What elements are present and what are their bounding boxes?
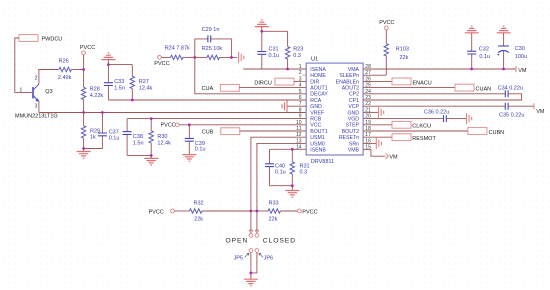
svg-text:0.1u: 0.1u (109, 136, 120, 142)
svg-text:C35 0.22u: C35 0.22u (499, 113, 524, 119)
svg-text:C33: C33 (114, 79, 124, 85)
svg-text:VM: VM (536, 109, 545, 115)
jumper JP5 top pin (249, 230, 253, 232)
svg-text:DIR: DIR (310, 79, 319, 85)
ground above C32 (465, 26, 479, 33)
svg-text:USM0: USM0 (310, 141, 325, 147)
node R26/PVCC junction (82, 68, 85, 71)
svg-text:RCB: RCB (310, 117, 321, 123)
ground at pin 7 GND (287, 105, 306, 107)
svg-text:R30: R30 (157, 134, 167, 140)
svg-text:5: 5 (299, 89, 302, 95)
svg-text:DECAY: DECAY (310, 92, 328, 98)
wire C33 top to R27 top (108, 65, 132, 77)
resistor R24 (171, 55, 183, 59)
wire pin 14 ISENB rail (270, 148, 307, 150)
svg-text:VM: VM (389, 155, 398, 161)
svg-text:C37: C37 (109, 129, 119, 135)
svg-text:1.5n: 1.5n (133, 141, 144, 147)
svg-text:C34 0.22u: C34 0.22u (498, 86, 523, 92)
svg-text:0.1u: 0.1u (195, 147, 206, 153)
net VM tick (515, 66, 517, 72)
svg-text:C36 0.22u: C36 0.22u (424, 110, 449, 116)
svg-text:C38: C38 (133, 134, 143, 140)
wire VM rail pin 28 VMA (363, 68, 516, 70)
svg-text:C29 1n: C29 1n (202, 27, 220, 33)
svg-text:6: 6 (299, 95, 302, 101)
node R28/rail (82, 111, 85, 114)
svg-text:13: 13 (296, 138, 302, 144)
svg-text:0.1u: 0.1u (479, 54, 490, 60)
svg-text:2: 2 (35, 75, 38, 81)
wire pin 15 VMB to VM (363, 150, 385, 157)
capacitor C38 (126, 119, 128, 132)
resistor R25 (195, 56, 207, 58)
svg-text:PWDCU: PWDCU (42, 37, 63, 43)
svg-text:HOME: HOME (310, 73, 326, 79)
svg-text:R32: R32 (194, 200, 204, 206)
svg-text:DRV8811: DRV8811 (311, 159, 334, 165)
capacitor C30 (polarized) (503, 33, 505, 46)
resistor R33 (257, 210, 268, 212)
wire PVCC to pin 10 VCC (179, 124, 306, 126)
svg-text:0.1u: 0.1u (269, 53, 280, 59)
svg-text:14: 14 (296, 145, 302, 151)
port PWDCU (19, 35, 38, 42)
svg-text:R26: R26 (59, 58, 69, 64)
port CUAN (455, 84, 474, 91)
svg-text:C31: C31 (269, 46, 279, 52)
wire DIRCU to pin 3 (294, 80, 306, 82)
svg-text:PVCC: PVCC (80, 45, 95, 51)
svg-text:PVCC: PVCC (302, 210, 317, 216)
resistor R31 (291, 149, 293, 161)
svg-text:OPEN: OPEN (226, 238, 249, 245)
svg-text:R28: R28 (90, 87, 100, 93)
svg-text:22k: 22k (269, 216, 278, 222)
resistor R23 (285, 47, 289, 59)
ground above C31 (255, 20, 269, 27)
capacitor C35 (VCP-VM) (363, 105, 505, 107)
svg-text:VGD: VGD (348, 117, 359, 123)
port CLKCU (392, 121, 411, 128)
svg-text:2: 2 (299, 70, 302, 76)
capacitor C37 (101, 113, 103, 134)
svg-text:1: 1 (299, 64, 302, 70)
wire ISENA rail pin 1 (243, 68, 306, 70)
svg-text:GND: GND (347, 110, 359, 116)
ground below R30 (150, 155, 152, 158)
wire VREF rail (39, 112, 306, 114)
svg-text:SLEEPn: SLEEPn (339, 73, 359, 79)
svg-text:STEP: STEP (345, 123, 359, 129)
capacitor C32 (471, 33, 473, 51)
svg-text:DIRCU: DIRCU (254, 80, 271, 86)
svg-text:VMA: VMA (348, 67, 360, 73)
svg-text:VCP: VCP (348, 104, 359, 110)
svg-text:CLKCU: CLKCU (412, 124, 431, 130)
node USM0/R33 (256, 210, 259, 213)
wire C33/R27 bottom to pin 6 RCA (108, 99, 306, 101)
wire pin 26 ENABLEn (363, 80, 392, 82)
capacitor C40 (269, 149, 271, 164)
wire R29/C37 bottom (84, 148, 103, 150)
capacitor C29 bridge (195, 39, 232, 58)
capacitor C31 (261, 31, 263, 51)
wire pin 12 USM1 (251, 137, 306, 233)
ground below R31 (291, 186, 293, 191)
svg-text:R27: R27 (139, 79, 149, 85)
svg-text:RESMOT: RESMOT (412, 136, 436, 142)
ground above C33 (101, 53, 115, 60)
capacitor C39 (188, 125, 190, 139)
wire Q3 collector up (39, 70, 59, 85)
svg-text:4: 4 (299, 83, 302, 89)
IC right pin numbers (365, 64, 371, 151)
svg-text:11: 11 (296, 126, 301, 132)
resistor R26 (59, 67, 71, 71)
resistor R30 (150, 119, 152, 131)
svg-text:MMUN2213LT1G: MMUN2213LT1G (15, 113, 58, 119)
wire C31 top to R23 top (262, 31, 288, 46)
resistor R27 (130, 76, 134, 88)
port ENACU (392, 78, 411, 85)
wire R28 bottom to VREF rail (83, 100, 85, 113)
IC right pin names (336, 67, 360, 154)
wire pin 27 SLEEPn to R103 (363, 74, 386, 76)
wire RCB rail pin 9 (127, 118, 306, 120)
node R31 top (291, 148, 294, 151)
svg-text:R103: R103 (396, 47, 409, 53)
svg-text:AOUT1: AOUT1 (310, 86, 327, 92)
wire CUA to pin 4 (239, 87, 306, 89)
svg-text:1k: 1k (90, 135, 96, 141)
svg-text:JP6: JP6 (264, 255, 273, 261)
wire pin 13 USM0 (257, 143, 306, 233)
svg-text:R23: R23 (293, 46, 303, 52)
svg-text:12.4k: 12.4k (157, 141, 171, 147)
svg-text:RCA: RCA (310, 98, 321, 104)
jumper JP5 bottom pin (249, 249, 253, 253)
wire PVCC to R24 (161, 56, 170, 58)
svg-text:PVCC: PVCC (161, 123, 176, 129)
wire CUB to pin 11 (240, 130, 306, 132)
svg-text:1.5n: 1.5n (114, 85, 125, 91)
svg-text:3: 3 (35, 103, 38, 109)
svg-text:8: 8 (299, 107, 302, 113)
node C37/rail (101, 111, 104, 114)
node R30 top (150, 117, 153, 120)
svg-text:CUB: CUB (202, 130, 214, 136)
svg-text:Q3: Q3 (45, 89, 52, 95)
svg-text:VCC: VCC (310, 123, 321, 129)
svg-text:PVCC: PVCC (379, 20, 394, 26)
wire pin 25 AOUT2 (363, 87, 455, 89)
svg-text:R31: R31 (300, 163, 310, 169)
svg-text:BOUT2: BOUT2 (342, 129, 359, 135)
node C31/R23 top (260, 30, 263, 33)
node R25 right (230, 56, 233, 59)
ground above C30 (497, 26, 511, 33)
svg-text:CLOSED: CLOSED (263, 238, 296, 245)
svg-text:VMB: VMB (348, 148, 360, 154)
svg-text:ENACU: ENACU (413, 80, 432, 86)
svg-text:C32: C32 (479, 47, 489, 53)
svg-text:PVCC: PVCC (149, 210, 164, 216)
transistor Q3 MMUN2213LT1G (33, 84, 39, 101)
svg-text:0.3: 0.3 (293, 53, 301, 59)
svg-text:9: 9 (299, 114, 302, 120)
wire PWDCU to Q3 base (15, 38, 33, 92)
wire C40/R31 bottom (270, 185, 293, 187)
svg-text:JP5: JP5 (234, 255, 243, 261)
svg-text:R33: R33 (269, 200, 279, 206)
resistor R29 (83, 113, 85, 126)
node C33/R27 top (107, 63, 110, 66)
svg-text:R24 7.87k: R24 7.87k (165, 46, 190, 52)
ground right of R25 (239, 52, 244, 63)
svg-text:CUBN: CUBN (489, 130, 505, 136)
svg-text:3: 3 (299, 76, 302, 82)
svg-text:U1: U1 (311, 56, 318, 62)
svg-text:R25 10k: R25 10k (202, 46, 223, 52)
svg-text:SRn: SRn (349, 141, 359, 147)
svg-text:AOUT2: AOUT2 (342, 86, 359, 92)
svg-text:2.49k: 2.49k (58, 75, 72, 81)
svg-text:ISENA: ISENA (310, 67, 326, 73)
svg-text:GND: GND (310, 104, 322, 110)
svg-text:VREF: VREF (310, 110, 324, 116)
IC left pin numbers (296, 64, 302, 151)
port RESMOT (392, 134, 411, 141)
svg-text:VM: VM (518, 68, 527, 74)
wire R26 to PVCC node (71, 69, 83, 71)
svg-text:4.22k: 4.22k (90, 93, 104, 99)
ground below C39 (182, 155, 196, 162)
svg-text:CP1: CP1 (349, 98, 359, 104)
svg-text:1: 1 (20, 87, 23, 93)
svg-text:100u: 100u (515, 54, 527, 60)
wire between jumper columns (251, 210, 257, 212)
svg-text:0.3: 0.3 (300, 170, 308, 176)
svg-text:C30: C30 (515, 46, 525, 52)
svg-text:CUAN: CUAN (476, 86, 492, 92)
wire pin 17 RESETn (363, 136, 392, 138)
capacitor C33 (107, 65, 109, 83)
jumper JP6 top pin (255, 230, 259, 232)
svg-text:CP2: CP2 (349, 92, 359, 98)
ground at pin 21 GND (363, 111, 378, 113)
ground right of C36 (467, 113, 472, 124)
svg-text:BOUT1: BOUT1 (310, 129, 327, 135)
wire pin 18 BOUT2 (363, 130, 468, 132)
wire JP6 bottom jog (251, 252, 257, 273)
jumper JP6 bottom pin (255, 249, 259, 253)
power PVCC (right of R33) (298, 209, 302, 213)
wire divider to pin 5 DECAY (195, 57, 306, 93)
svg-text:12.4k: 12.4k (139, 85, 153, 91)
capacitor C34 (CP2-CP1) (363, 93, 505, 95)
svg-text:ENABLEn: ENABLEn (336, 79, 359, 85)
svg-text:ISENB: ISENB (310, 148, 326, 154)
IC U1 DRV8811 (306, 63, 363, 155)
ground below jumpers (244, 279, 258, 286)
wire PVCC down to R28 (83, 55, 85, 87)
svg-text:0.1u: 0.1u (275, 170, 286, 176)
resistor R103 (385, 30, 387, 44)
svg-text:10: 10 (296, 120, 302, 126)
svg-text:RESETn: RESETn (339, 135, 359, 141)
svg-text:22k: 22k (400, 55, 409, 61)
resistor R28 (81, 87, 85, 99)
svg-text:12: 12 (296, 132, 302, 138)
svg-text:22k: 22k (194, 216, 203, 222)
svg-text:+: + (497, 52, 500, 58)
resistor R32 (174, 210, 189, 212)
pin stub 2 HOME (302, 74, 306, 76)
IC left pin names (310, 67, 328, 154)
port CUBN (468, 128, 487, 135)
svg-text:CUA: CUA (202, 86, 214, 92)
wire pin 19 STEP (363, 124, 392, 126)
ground below R29 (83, 149, 85, 152)
wire C38/R30 bottom (127, 154, 151, 156)
svg-text:C40: C40 (275, 163, 285, 169)
node USM1/R32 (250, 210, 253, 213)
wire JP5 bottom to ground (250, 252, 252, 279)
ground at pin 16 SRn (363, 142, 376, 144)
wire Q3 emitter down (38, 101, 40, 112)
capacitor C36 (VGD) (363, 118, 443, 120)
svg-text:PVCC: PVCC (154, 61, 169, 67)
node C39 top (188, 123, 191, 126)
node divider junction (193, 56, 196, 59)
svg-text:USM1: USM1 (310, 135, 325, 141)
